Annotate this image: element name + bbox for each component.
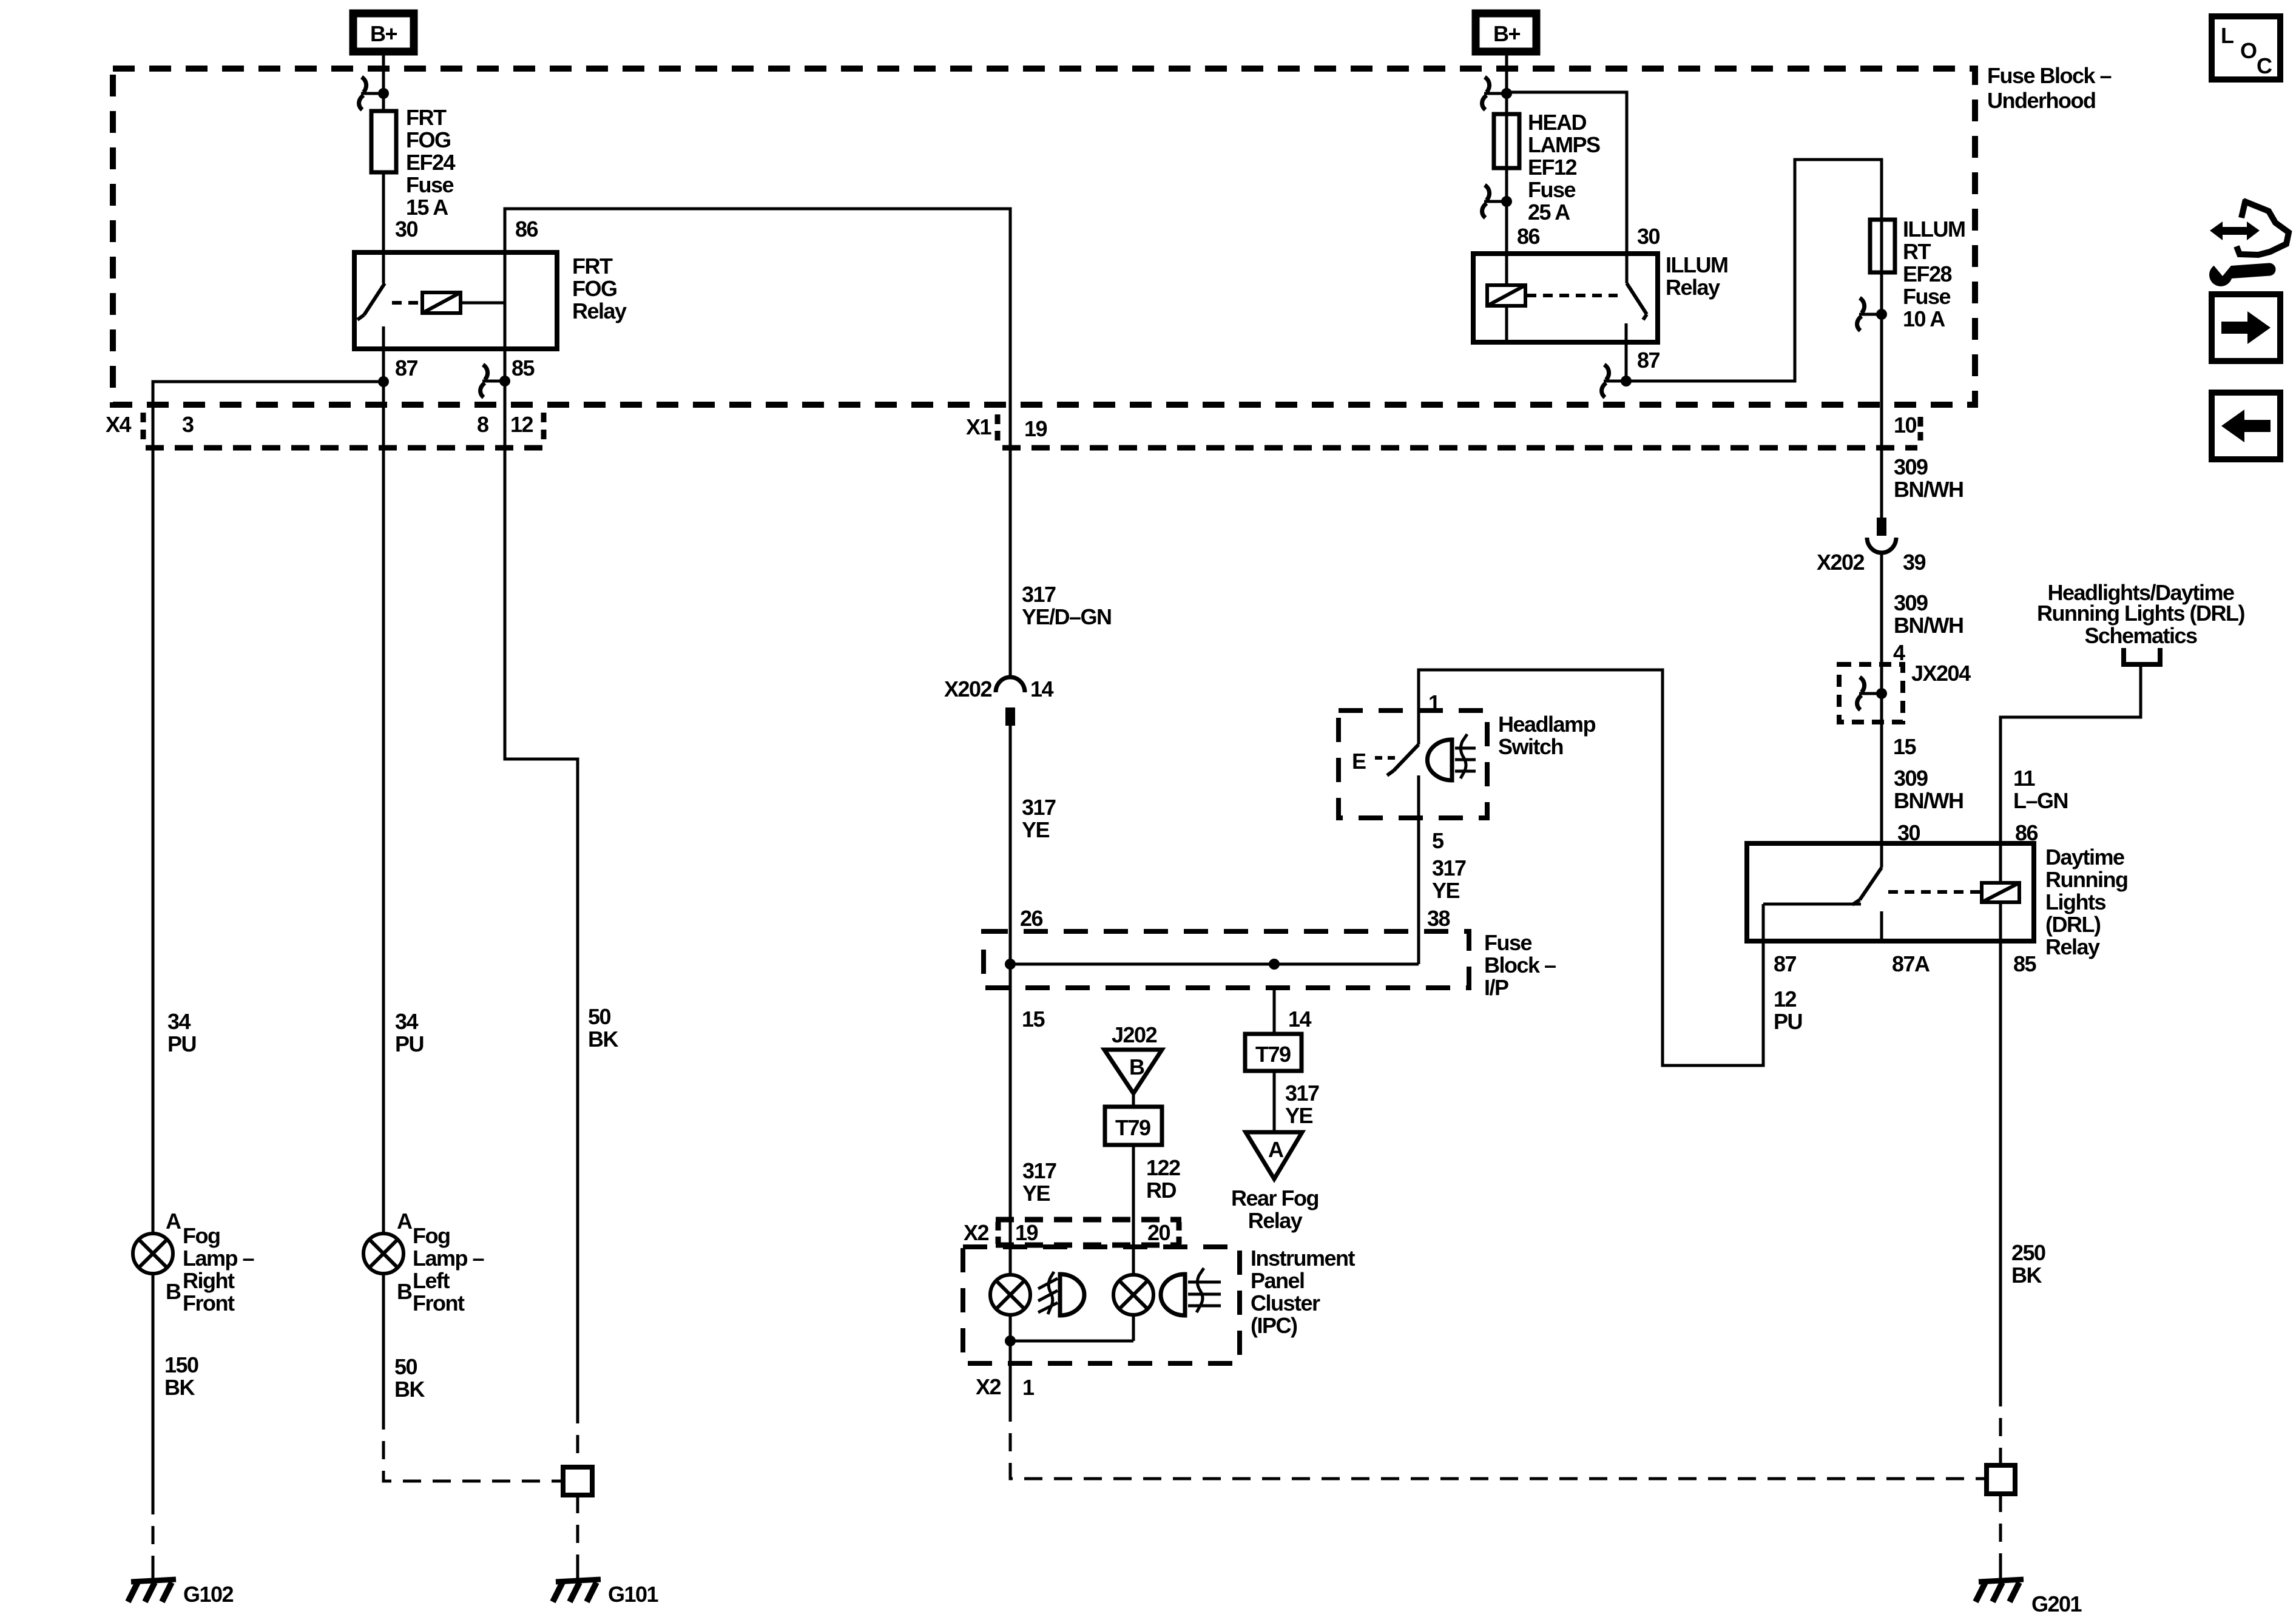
svg-text:YE: YE	[1022, 817, 1050, 842]
wire: branch right to ILLUM relay pin 30	[1507, 92, 1627, 254]
svg-text:8: 8	[477, 412, 488, 437]
ground G102	[128, 1569, 234, 1607]
svg-text:150: 150	[164, 1352, 198, 1377]
svg-text:A: A	[1268, 1137, 1284, 1162]
svg-text:15: 15	[1022, 1007, 1045, 1031]
wire label: circuit 150 BK	[164, 1352, 198, 1400]
svg-text:30: 30	[395, 217, 418, 241]
label: Fog Lamp - Right Front	[183, 1223, 254, 1315]
svg-text:YE: YE	[1022, 1181, 1050, 1206]
svg-text:Headlamp: Headlamp	[1498, 712, 1596, 737]
svg-text:14: 14	[1288, 1007, 1312, 1031]
wire label: circuit 309 BN/WH	[1894, 766, 1963, 813]
svg-text:25 A: 25 A	[1528, 200, 1570, 224]
svg-text:A: A	[166, 1209, 181, 1234]
clip and junction at B+ feed node	[359, 77, 389, 110]
fuse block - underhood (dashed boundary box)	[113, 69, 1975, 405]
svg-text:10: 10	[1894, 413, 1917, 437]
wire (dashed): splice to G201	[1999, 1494, 2002, 1580]
svg-text:86: 86	[515, 217, 538, 241]
ILLUM relay coil link (dashed)	[1527, 294, 1618, 297]
in-line connector X202 pin 39	[1867, 518, 1896, 553]
wire label: circuit 309 BN/WH	[1894, 590, 1963, 638]
junction at IPC ground bus	[1005, 1335, 1016, 1346]
svg-text:Instrument: Instrument	[1251, 1246, 1356, 1271]
svg-text:(DRL): (DRL)	[2045, 912, 2101, 937]
svg-text:86: 86	[1517, 224, 1540, 249]
off-page reference: Headlights/Daytime Running Lights (DRL) Schematics	[2037, 580, 2244, 648]
svg-text:YE: YE	[1285, 1103, 1313, 1128]
svg-text:Schematics: Schematics	[2084, 623, 2197, 648]
svg-text:FRT: FRT	[572, 254, 613, 279]
wire label: circuit 12 PU	[1774, 987, 1802, 1034]
wire: T79 to Rear Fog Relay terminal A	[1273, 1071, 1276, 1132]
wire label: circuit 250 BK	[2011, 1240, 2045, 1288]
terminal A triangle (to Rear Fog Relay)	[1246, 1132, 1302, 1179]
label: Daytime Running Lights (DRL) Relay	[2045, 845, 2127, 959]
svg-text:11: 11	[2013, 766, 2036, 791]
svg-text:Switch: Switch	[1498, 734, 1563, 759]
svg-text:EF24: EF24	[406, 150, 456, 175]
svg-text:BN/WH: BN/WH	[1894, 788, 1963, 813]
wire: right fog lamp B to G102 (solid then dashed)	[152, 1274, 155, 1496]
svg-text:X1: X1	[966, 414, 992, 439]
label: HEAD LAMPS EF12 Fuse 25 A	[1528, 110, 1600, 224]
relay FRT FOG (box)	[354, 252, 557, 349]
svg-text:ILLUM: ILLUM	[1903, 217, 1965, 241]
svg-text:X2: X2	[964, 1220, 989, 1245]
label: ILLUM RT EF28 Fuse 10 A	[1903, 217, 1965, 331]
svg-text:ILLUM: ILLUM	[1666, 252, 1727, 277]
svg-text:EF28: EF28	[1903, 262, 1952, 286]
svg-text:FRT: FRT	[406, 105, 447, 130]
relay Daytime Running Lights DRL (box)	[1747, 843, 2034, 941]
clip and junction at ILLUM relay 87	[1602, 365, 1632, 397]
svg-text:X2: X2	[976, 1374, 1001, 1399]
svg-text:Fuse: Fuse	[406, 172, 454, 197]
DRL relay coil	[1982, 883, 2019, 902]
svg-text:5: 5	[1432, 828, 1444, 853]
svg-text:317: 317	[1022, 795, 1056, 820]
wire: FRT FOG relay 85 down through X4-12, jog right	[505, 349, 578, 1405]
wire label: circuit 317 YE/D-GN	[1022, 582, 1112, 629]
IPC headlamp indicator bulb	[1113, 1275, 1153, 1315]
connector X1 row (pins 19, 10)	[998, 414, 1920, 448]
svg-text:YE/D–GN: YE/D–GN	[1022, 604, 1112, 629]
svg-text:Fuse Block –: Fuse Block –	[1987, 63, 2112, 88]
LOC reference box	[2212, 16, 2280, 79]
svg-text:19: 19	[1015, 1220, 1038, 1245]
svg-text:Lights: Lights	[2045, 890, 2105, 914]
svg-text:Fog: Fog	[413, 1223, 450, 1248]
svg-text:Running: Running	[2045, 867, 2127, 892]
svg-text:15: 15	[1893, 734, 1917, 759]
svg-text:87: 87	[1774, 951, 1797, 976]
svg-text:Front: Front	[183, 1291, 235, 1315]
fuse block I/P internal bus	[1010, 963, 1419, 966]
svg-text:50: 50	[394, 1354, 417, 1379]
wire: FRT FOG relay 86 up and across to fuse block pin 19	[505, 209, 1010, 678]
svg-text:317: 317	[1022, 582, 1056, 607]
wire label: circuit 317 YE	[1022, 1158, 1056, 1206]
svg-text:39: 39	[1903, 550, 1926, 575]
svg-text:26: 26	[1020, 906, 1043, 931]
svg-text:B: B	[397, 1279, 412, 1304]
svg-text:12: 12	[510, 412, 533, 437]
svg-text:RD: RD	[1146, 1178, 1176, 1203]
svg-text:PU: PU	[1774, 1009, 1802, 1034]
svg-text:4: 4	[1893, 640, 1905, 665]
svg-text:50: 50	[588, 1004, 611, 1029]
svg-text:E: E	[1352, 749, 1366, 774]
wire: X202-14 down to fuse block I/P pin 26	[1009, 726, 1012, 988]
svg-text:Fuse: Fuse	[1484, 930, 1532, 955]
IPC fog lamp indicator bulb	[990, 1275, 1030, 1315]
wire: fuse EF28 down through X1-10 to connector X202	[1880, 220, 1883, 519]
svg-text:309: 309	[1894, 766, 1928, 791]
svg-text:FOG: FOG	[406, 127, 451, 152]
wire: X202-39 to DRL relay pin 30	[1880, 553, 1883, 843]
svg-text:I/P: I/P	[1484, 975, 1508, 1000]
svg-text:FOG: FOG	[572, 276, 617, 301]
instrument panel cluster IPC (dashed box)	[963, 1247, 1240, 1363]
headlamp switch (dashed box)	[1339, 711, 1487, 818]
svg-text:87: 87	[1637, 348, 1660, 373]
svg-text:(IPC): (IPC)	[1251, 1313, 1297, 1338]
svg-text:LAMPS: LAMPS	[1528, 132, 1600, 157]
fuse HEAD LAMPS EF12 25A	[1494, 114, 1519, 168]
clip and junction at B+ feed node (HEAD LAMPS)	[1482, 77, 1512, 110]
splice pack J202 terminal B (triangle)	[1104, 1022, 1162, 1093]
backward reference arrow box	[2212, 393, 2280, 459]
relay ILLUM (box)	[1473, 254, 1658, 342]
ILLUM relay coil stub to box bottom	[1505, 306, 1508, 342]
svg-text:15 A: 15 A	[406, 195, 448, 220]
wire (dashed): X2-1 to splice near G201	[1010, 1403, 1987, 1479]
svg-text:309: 309	[1894, 454, 1928, 479]
wire label: circuit 317 YE	[1432, 856, 1466, 903]
svg-text:87: 87	[395, 356, 418, 380]
svg-text:BN/WH: BN/WH	[1894, 613, 1963, 638]
wire: I/P pin 14 down to T79	[1273, 988, 1276, 1034]
wire: branch left to X4-3	[153, 382, 383, 1234]
FRT FOG relay coil	[422, 292, 461, 313]
ILLUM relay switch arm (pin 30 to 87)	[1626, 254, 1647, 342]
svg-text:Fuse: Fuse	[1528, 177, 1576, 202]
wire label: circuit 317 YE	[1285, 1081, 1319, 1128]
svg-text:Relay: Relay	[572, 299, 627, 323]
power symbol B+ (battery positive, FRT FOG feed)	[353, 13, 414, 52]
svg-text:122: 122	[1146, 1155, 1180, 1180]
fuse block - I/P (dashed box)	[984, 931, 1469, 988]
svg-text:38: 38	[1427, 906, 1450, 931]
fuse FRT FOG EF24 15A	[371, 111, 396, 172]
svg-text:Panel: Panel	[1251, 1268, 1305, 1293]
svg-text:Lamp –: Lamp –	[413, 1246, 484, 1271]
svg-text:BK: BK	[164, 1375, 195, 1400]
svg-text:30: 30	[1637, 224, 1660, 249]
svg-text:250: 250	[2011, 1240, 2045, 1265]
headlamp switch lamp symbol	[1427, 734, 1476, 780]
svg-text:34: 34	[395, 1009, 419, 1034]
ground G201	[1976, 1569, 2082, 1616]
svg-text:PU: PU	[167, 1031, 196, 1056]
wire: ILLUM 87 right, up and over to ILLUM RT fuse	[1626, 160, 1882, 381]
svg-text:Block –: Block –	[1484, 953, 1556, 977]
headlamp indicator icon	[1161, 1268, 1221, 1315]
svg-text:X202: X202	[944, 677, 992, 701]
svg-text:309: 309	[1894, 590, 1928, 615]
svg-text:317: 317	[1285, 1081, 1319, 1106]
FRT FOG relay coil link (dashed)	[392, 301, 421, 305]
DRL relay pin 86 stub and coil to 85	[1999, 843, 2002, 941]
wire label: circuit 34 PU (left fog lamp)	[395, 1009, 424, 1056]
fog lamp indicator icon	[1038, 1272, 1084, 1315]
junction block JX204 (dashed box with clip)	[1839, 664, 1903, 722]
svg-text:L–GN: L–GN	[2013, 788, 2068, 813]
fog lamp - left front (bulb)	[363, 1234, 403, 1274]
wire label: circuit 50 BK	[394, 1354, 425, 1402]
svg-text:Right: Right	[183, 1268, 235, 1293]
wire: J202-B to T79	[1132, 1093, 1135, 1107]
svg-text:B+: B+	[370, 21, 397, 46]
svg-text:YE: YE	[1432, 878, 1460, 903]
svg-text:14: 14	[1030, 677, 1054, 701]
wire (dashed): 50 BK leg to splice	[576, 1405, 579, 1467]
connector T79 (in-line, rear fog feed)	[1245, 1034, 1302, 1071]
svg-text:G102: G102	[183, 1582, 234, 1607]
IPC internal ground bus	[1010, 1315, 1133, 1363]
svg-text:O: O	[2240, 38, 2257, 63]
svg-text:85: 85	[2013, 951, 2037, 976]
svg-text:1: 1	[1022, 1375, 1035, 1400]
forward reference arrow box	[2212, 294, 2280, 361]
svg-text:BN/WH: BN/WH	[1894, 477, 1963, 502]
label: Rear Fog Relay	[1231, 1186, 1319, 1233]
wire: left fog lamp B down (solid then dashed) to splice	[382, 1274, 385, 1411]
svg-text:L: L	[2221, 23, 2234, 48]
svg-text:HEAD: HEAD	[1528, 110, 1587, 135]
svg-text:T79: T79	[1255, 1042, 1291, 1067]
svg-text:X202: X202	[1817, 550, 1865, 575]
svg-text:Lamp –: Lamp –	[183, 1246, 254, 1271]
FRT FOG relay coil to pins 86/85	[461, 252, 505, 349]
ground G101	[553, 1569, 659, 1607]
wire: DRL 87 down, left, up to headlamp switch pin 1	[1419, 670, 1763, 1065]
label: Instrument Panel Cluster (IPC)	[1251, 1246, 1356, 1338]
svg-text:T79: T79	[1115, 1115, 1150, 1140]
label: Fuse Block - Underhood	[1987, 63, 2112, 113]
svg-text:10 A: 10 A	[1903, 306, 1945, 331]
svg-text:BK: BK	[2011, 1263, 2042, 1288]
svg-text:B: B	[166, 1279, 181, 1304]
clip and junction below EF28 fuse	[1857, 298, 1887, 331]
svg-text:G201: G201	[2031, 1592, 2082, 1616]
wire (dashed): splice to G101	[576, 1495, 579, 1580]
svg-text:X4: X4	[106, 412, 132, 437]
svg-text:317: 317	[1022, 1158, 1056, 1183]
wire: off-page reference to DRL relay pin 86	[2001, 664, 2141, 843]
connector X2 pin 1	[976, 1374, 1035, 1400]
svg-text:317: 317	[1432, 856, 1466, 880]
vehicle/service icon (double arrow, car outline, wrench)	[2204, 200, 2289, 286]
svg-text:RT: RT	[1903, 239, 1931, 264]
svg-text:A: A	[397, 1209, 413, 1234]
wire: I/P pin 15 down to IPC fog indicator	[1009, 988, 1012, 1275]
connector X2 row (pins 19, 20)	[996, 1220, 1181, 1245]
wire label: circuit 11 L-GN	[2013, 766, 2068, 813]
label: ILLUM Relay	[1666, 252, 1727, 300]
wire: IPC ground out through X2-1	[1009, 1363, 1012, 1403]
svg-text:12: 12	[1774, 987, 1797, 1011]
fog lamp - right front (bulb)	[133, 1234, 173, 1274]
junction at pin 26/15 riser	[1005, 959, 1016, 970]
DRL relay switch arm (30 to 87/87A)	[1763, 843, 1882, 941]
svg-text:Relay: Relay	[1248, 1208, 1303, 1233]
wire: B+ to FRT FOG fuse	[382, 52, 385, 113]
svg-text:Daytime: Daytime	[2045, 845, 2124, 869]
svg-text:C: C	[2257, 53, 2272, 78]
DRL relay coil link (dashed)	[1888, 890, 1980, 894]
connector T79 (in-line)	[1105, 1107, 1162, 1145]
wire label: circuit 34 PU (right fog lamp)	[167, 1009, 196, 1056]
wire: switch pin 5 down to fuse block I/P pin 38	[1417, 775, 1420, 964]
label: FRT FOG EF24 Fuse 15 A	[406, 105, 456, 220]
svg-text:Running Lights (DRL): Running Lights (DRL)	[2037, 601, 2244, 626]
svg-text:87A: 87A	[1892, 951, 1930, 976]
wire label: circuit 50 BK (relay 85 leg)	[588, 1004, 618, 1052]
wire label: circuit 122 RD	[1146, 1155, 1180, 1203]
power symbol B+ (battery positive, HEAD LAMPS feed)	[1476, 13, 1536, 52]
headlamp switch arm	[1387, 744, 1419, 775]
svg-text:20: 20	[1147, 1220, 1170, 1245]
svg-text:G101: G101	[608, 1582, 659, 1607]
label: Fog Lamp - Left Front	[413, 1223, 484, 1315]
svg-text:B: B	[1129, 1055, 1144, 1079]
svg-text:34: 34	[167, 1009, 191, 1034]
svg-text:BK: BK	[394, 1377, 425, 1402]
label: Headlamp Switch	[1498, 712, 1596, 759]
in-line connector X202 pin 14	[996, 677, 1025, 726]
svg-text:B+: B+	[1493, 21, 1520, 46]
label: Fuse Block - I/P	[1484, 930, 1556, 1000]
svg-text:Relay: Relay	[1666, 275, 1720, 300]
headlamp switch internal dashed link	[1375, 756, 1397, 760]
wire: DRL relay 85 down (solid then dashed)	[1999, 941, 2002, 1388]
svg-text:Left: Left	[413, 1268, 450, 1293]
fuse ILLUM RT EF28 10A	[1870, 220, 1895, 272]
svg-text:JX204: JX204	[1911, 661, 1971, 686]
svg-text:Cluster: Cluster	[1251, 1291, 1320, 1315]
svg-text:Underhood: Underhood	[1987, 88, 2095, 113]
svg-text:Rear Fog: Rear Fog	[1231, 1186, 1319, 1210]
clip and junction below EF12 fuse	[1482, 185, 1512, 218]
svg-text:3: 3	[182, 412, 194, 437]
svg-text:Fuse: Fuse	[1903, 284, 1951, 309]
label: FRT FOG Relay	[572, 254, 627, 323]
svg-text:BK: BK	[588, 1027, 618, 1052]
svg-text:Front: Front	[413, 1291, 465, 1315]
svg-text:85: 85	[512, 356, 535, 380]
svg-text:J202: J202	[1112, 1022, 1157, 1047]
junction at pin 14 branch	[1269, 959, 1280, 970]
splice (ground junction block) near G201	[1987, 1465, 2015, 1494]
junction at relay 87 branch	[378, 376, 389, 387]
FRT FOG relay switch arm (pin 30 to 87)	[357, 252, 385, 349]
wire: B+ to HEAD LAMPS fuse and into ILLUM relay coil	[1505, 52, 1508, 285]
wire label: circuit 317 YE	[1022, 795, 1056, 842]
svg-text:PU: PU	[395, 1031, 424, 1056]
svg-text:EF12: EF12	[1528, 155, 1577, 180]
svg-text:19: 19	[1024, 416, 1047, 441]
wire label: circuit 309 BN/WH	[1894, 454, 1963, 502]
off-page reference bracket	[2124, 648, 2160, 664]
svg-text:Relay: Relay	[2045, 934, 2100, 959]
wire: fuse EF24 to relay pin 30	[382, 172, 385, 252]
splice (ground junction block) near G101	[563, 1467, 592, 1495]
wire: T79 down through X2-20 to IPC headlamp indicator	[1132, 1145, 1135, 1275]
connector X4 row (pins 3, 8, 12)	[143, 413, 544, 448]
wire: FRT FOG relay 87 down through X4-8 to Fog Lamp Left Front	[382, 349, 385, 1234]
clip and junction on relay 85 wire	[481, 365, 510, 397]
svg-text:Fog: Fog	[183, 1223, 220, 1248]
ILLUM relay coil	[1487, 285, 1525, 306]
